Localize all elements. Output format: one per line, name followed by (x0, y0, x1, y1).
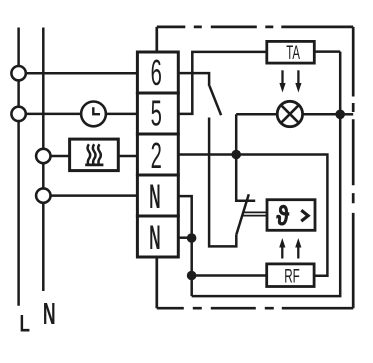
heater element box (70, 139, 119, 171)
wire terminal 6 to switch S1 (178, 73, 209, 86)
wire N-net right vertical and bottom run (192, 52, 341, 297)
terminal circle on L (second) (11, 107, 25, 121)
wire S1 contact down to S2 pivot (209, 118, 236, 247)
svg-text:RF: RF (284, 267, 300, 288)
terminal circle on N (third) (36, 149, 50, 163)
wire TA to N-net vertical (314, 50, 340, 53)
wire L supply vertical (17, 28, 20, 306)
box thermostat sensor (267, 200, 315, 231)
wire terminal N1 down left rail (178, 196, 191, 296)
svg-text:N: N (149, 177, 160, 216)
arrowhead down 1 (279, 83, 285, 93)
arrowhead up 1 (279, 238, 285, 248)
switch S1 blade (open) (210, 86, 222, 115)
svg-text:N: N (149, 218, 160, 257)
wire L to clock (26, 113, 81, 116)
arrowhead up 2 (295, 238, 301, 248)
lamp symbol (277, 101, 302, 126)
junction dot N rail lower (187, 271, 197, 281)
wire terminal 2 to RF right (178, 155, 327, 276)
terminal circle on L (top) (11, 66, 25, 80)
svg-text:5: 5 (151, 95, 162, 134)
wire N supply vertical (42, 28, 45, 292)
arrowhead down 2 (295, 83, 301, 93)
svg-text:L: L (19, 311, 30, 338)
wire rail to RF left (192, 274, 267, 277)
svg-text:N: N (43, 297, 56, 331)
svg-text:ϑ: ϑ (276, 201, 289, 232)
wire terminal N2 to rail (178, 236, 191, 239)
mechanical link S2 to sensor box (242, 212, 267, 215)
box RF (267, 264, 314, 287)
wire heater to terminal 2 (118, 155, 137, 158)
box TA (267, 41, 315, 63)
wire lamp junction to frame (340, 113, 353, 116)
wire lamp right (302, 113, 340, 116)
terminal block 6/5/2/N/N (137, 52, 178, 257)
device boundary frame (dash-dot) (157, 27, 353, 308)
wire lamp left to S2 branch (236, 113, 277, 116)
arrow down 1 (TA signal) (282, 70, 298, 258)
switch S2 thermostat blade (236, 194, 249, 235)
svg-text:TA: TA (286, 43, 300, 64)
svg-text:2: 2 (151, 137, 162, 176)
junction dot terminal2/lamp branch (231, 150, 241, 160)
junction dot lamp/N (335, 110, 345, 120)
junction dot N rail upper (187, 233, 197, 243)
wire lamp branch down to S2 contact (236, 114, 255, 201)
wire L to terminal 6 (26, 72, 137, 75)
label greater-than (301, 210, 308, 221)
svg-text:6: 6 (151, 54, 162, 93)
wire terminal 5 up to TA (178, 52, 266, 114)
clock / timer symbol (81, 102, 106, 127)
wire N to terminal N1 (51, 194, 138, 197)
wire clock to terminal 5 (106, 113, 137, 116)
wire N to heater (51, 155, 70, 158)
terminal circle on N (fourth) (36, 188, 50, 202)
